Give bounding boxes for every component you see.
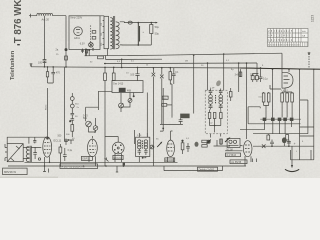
svg-text:0,1µ: 0,1µ [263,79,268,81]
label strip on line y=170.6 [198,167,218,171]
wire HT+ rail top [120,21,157,24]
svg-text:53421632451261532415: 53421632451261532415 [268,45,301,47]
resistor R12 below [286,135,289,141]
IF2 capacitor a [209,104,213,109]
wire strip connect line [260,118,301,120]
connector pin strip dark blobs [263,118,267,121]
capacitor C3 cluster above AVC bus [81,49,87,56]
wire vertical x=207.5 [207,63,209,90]
wire long vertical x=299.5 [299,69,301,160]
wire horizontal y=133.7 [253,133,308,135]
switch contact X3 on anode line [262,144,266,148]
svg-text:50µ: 50µ [155,26,160,29]
capacitor C10 cathode [63,148,67,161]
chassis label plate bottom left [3,168,28,175]
svg-text:220: 220 [101,43,103,46]
capacitor C8 [259,68,263,82]
node dot osc [133,95,135,97]
capacitor C2 parallel [51,67,55,83]
wire stub arrow [92,48,94,51]
resistor R3 psu [92,31,96,34]
resistor R9 right of IF2 [229,92,232,98]
wire heavy HT bus right segment [240,68,320,69]
dark part label in osc box [119,88,126,92]
svg-text:2536421425: 2536421425 [268,31,293,33]
svg-text:470: 470 [56,71,61,74]
wire screen bus [104,62,257,65]
wire IF1 connections [139,133,147,162]
svg-text:ECH11: ECH11 [165,158,174,162]
grid network cluster [64,139,74,145]
IF2 core dashes [215,95,217,104]
capacitor C7 under label [160,118,183,124]
wire x=147.3 vertical upper [146,93,148,138]
output transformer core [30,146,31,162]
trimmer capacitor osc 1 [128,99,132,103]
transformer T1 primary tapped box [104,16,109,48]
wire left vertical x=163.2 [160,88,163,131]
svg-text:150: 150 [101,33,103,36]
title dash mark [17,44,20,45]
antenna coil L1 [37,13,53,15]
wire vertical x=248.1 [248,107,260,124]
wire long vertical x=313.8 [313,69,315,160]
wire transformer secondary to tube anode [31,146,41,149]
svg-text:6452324653: 6452324653 [268,36,293,38]
ink smudge artifact [215,80,222,87]
svg-text:468: 468 [127,89,132,92]
svg-text:1.ZF: 1.ZF [137,135,142,137]
wire ECH11 top lead [105,137,118,143]
wire horizontal y=123.8 [248,123,300,125]
output transformer winding [26,146,29,162]
wire vertical x=307.9 [300,100,308,134]
boxed label strip [230,160,247,164]
transformer T1 primary winding loops [110,18,113,49]
output tube ECL11 [43,137,52,157]
grid cap blob [46,137,49,140]
resistor R10 pair [251,76,254,80]
small circle pin [38,158,40,160]
wire osc connections [98,91,133,112]
variable arrow mark [157,142,161,147]
dark label box 468kHz [180,114,189,119]
loudspeaker diagonal [7,144,23,162]
svg-text:110: 110 [101,23,103,26]
pilot lamp [89,43,94,48]
wire ground drop x=292 [291,146,293,166]
IF1 winding b [144,140,147,143]
wire vertical x=193.7 [193,55,195,113]
switch contact X1 [152,73,156,77]
wire speaker bottom connect [291,150,314,160]
wire verticals below strip [265,121,292,134]
switch contact box on antenna lead [65,56,68,60]
capacitor C12 above line [270,140,274,147]
svg-text:0,1µ: 0,1µ [68,150,73,152]
resistor R11 below [267,135,270,140]
wire ECL11 leads [45,157,50,167]
padder trimmer 1 [86,121,92,127]
svg-text:Volt: Volt [302,30,306,33]
parts right cluster wires [214,139,231,146]
IF transformer 1 box [136,137,150,156]
wire EM11 cathode bend [270,85,285,92]
svg-text:2M: 2M [185,61,188,63]
wire long vertical x=272.5 [272,69,274,117]
svg-text:AL 65/38: AL 65/38 [231,161,242,164]
node dot [88,49,90,51]
wire transformer top to box [100,15,104,17]
wire anode line y=146 to right [253,145,314,147]
tube EBF11 oval [88,139,98,157]
wire bottom line y=170.6 [164,166,223,171]
tube ECH11 socket circle [112,142,124,154]
boxed label under detector [226,153,241,157]
magic eye tube EM11 [282,72,293,88]
resistor R14 diagonal small [105,158,109,162]
svg-text:Netz 220V: Netz 220V [71,17,83,20]
capacitor C13 small above transformer [33,137,36,143]
wave range label strip [60,164,98,169]
svg-text:100: 100 [130,74,135,77]
svg-text:100: 100 [38,62,43,65]
wire heater bus [106,55,162,59]
voltage table top right [268,29,309,47]
wire antenna down-lead x=66 [65,16,67,67]
svg-text:Telefunken: Telefunken [10,50,16,80]
svg-text:2.ZF: 2.ZF [210,88,215,90]
resistor R4 psu [92,37,96,40]
IF2 lower resistors [208,113,211,119]
svg-text:Welle: Welle [46,104,48,110]
svg-text:865/38 W: 865/38 W [4,170,16,174]
padder trimmer 2 [93,126,98,131]
capacitor C6 beside R7 [172,68,176,84]
wire AVC bus [85,53,283,56]
resistor R5 on vertical x=105 [104,67,106,166]
resistor R8 horizontal [162,104,167,107]
resistor R2 small [98,56,104,59]
wire speaker to transformer [23,148,29,159]
wire x=282 from AVC bus into EM11 [281,53,283,72]
chassis ground arc [285,169,299,171]
wire bottom bus y=166 [8,165,246,167]
svg-text:ECL11: ECL11 [54,139,62,143]
capacitor C4 electrolytic filter [138,23,139,45]
rectifier tube V1 [74,27,83,36]
wire IF1 left feed [133,130,135,144]
IF transformer 2 shield dashed box [205,90,227,134]
capacitor C9 tone [33,147,37,159]
dark diode blob [282,137,287,143]
capacitor C1 in antenna lead [43,60,47,63]
junction dots on bus [44,66,46,68]
dark trimmer with arrow [207,140,211,144]
resistor cluster under EM11 right triple [281,93,284,102]
tube EF/ECH oval 2 [167,140,175,156]
oscillator coil box [112,81,143,93]
dark blob component [195,142,199,147]
node junction blob [65,48,68,51]
resistor R15 [181,143,184,150]
junction dots mid buses [104,63,106,65]
wire EBF11 leads [89,136,96,166]
IF2 trimmer top 1 [209,89,213,95]
wire detector to tube [225,145,243,151]
parts left of EBF tube small trimmer [150,145,154,149]
svg-text:1 0,1 2: 1 0,1 2 [281,90,288,92]
resistor R16 horizontal [202,140,207,143]
dashed shield line [90,25,92,47]
dipole antenna symbol right [308,54,310,70]
dark cap on bus [123,163,125,166]
boxed tube label [165,158,175,162]
svg-text:Drehko 2x500: Drehko 2x500 [199,168,215,171]
IF2 winding b [219,95,223,99]
wire ties right loop [300,127,314,136]
wire tube5 leads [245,156,257,166]
wire main HT bus [31,67,320,69]
speaker terminals [5,144,7,161]
svg-text:1324532614: 1324532614 [268,40,293,42]
svg-text:0,1 5643: 0,1 5643 [227,154,237,157]
wire tube2 leads [168,157,174,162]
power supply box [69,16,100,50]
wire EM11 grid stub [288,69,290,72]
arrow HT- rail end [150,23,152,45]
svg-text:mA: mA [302,35,306,38]
wire output stage top feed [7,137,47,143]
wire horizontal y=129.7 [240,129,265,131]
RC part right [287,140,291,147]
IF2 winding a [209,95,213,99]
boxed tube label ECH11 [113,155,123,159]
transformer T1 secondary winding loops [116,22,119,49]
loudspeaker box left [7,144,23,162]
capacitor C5 coupling [135,67,139,81]
svg-text:6,3V: 6,3V [80,43,85,46]
wire HT- rail bottom [120,44,152,46]
electrolytic can symbol on rail [128,21,132,24]
ground hooks below bus [43,166,118,173]
band switch component column [70,97,74,101]
resistor R13 cathode [59,147,62,153]
switch contact X2 [160,75,164,79]
wire vertical x=161.8 with switch [161,68,163,125]
svg-text:AZ11: AZ11 [74,37,80,40]
IF2 capacitor b [219,104,223,109]
bottom edge smear [0,177,58,178]
terminal ground stub left [30,63,33,66]
boxed tube label EBF11 [81,156,92,160]
svg-text:+: + [294,142,296,146]
wire vertical x=223.7 [223,54,225,90]
wire antenna lead [32,15,66,17]
resistor cluster under EM11 left pair [262,93,265,102]
IF2 trimmer top 2 [219,89,223,95]
output tube AL oval [243,141,252,157]
wire vertical x=238.7 [238,63,240,92]
resistor R7 [170,68,172,118]
resistor R6 on vertical x=113.7 [113,67,115,81]
wire vertical x=240.5 with part [240,69,242,77]
svg-text:Ant 20: Ant 20 [42,18,50,22]
arrowhead ground [291,165,293,168]
wire IF2 exits [211,134,221,138]
wire ECH11 bottom leads [115,153,122,162]
svg-text:50µ: 50µ [155,33,160,36]
wire coil tap down x=44.5 [44,16,46,67]
small boxed label 500 [162,96,168,99]
trimmer capacitor osc 2 [119,103,124,108]
resistor R1 grid leak [48,67,54,83]
svg-text:Osz 1413: Osz 1413 [113,82,124,85]
wire screen bus corner down x=257 [256,63,258,76]
IF1 winding a [138,140,141,143]
IF1 core dashes [142,141,144,149]
detector network box [227,138,240,147]
transformer T1 core [114,16,115,49]
wire tie heater to HT bus [121,59,123,67]
wire bottom bus y=162.3 [25,161,178,163]
wire padder connections [86,49,99,133]
junction dots bottom bus [60,165,62,167]
svg-text:T 876 WK: T 876 WK [13,0,24,43]
antenna terminal [29,14,32,18]
wire long vertical x=153.4 with switch [152,68,154,166]
svg-text:A 16,7-50 B 200-578: A 16,7-50 B 200-578 [62,165,86,168]
IF1 capacitors [138,149,148,155]
svg-text:1223: 1223 [310,15,314,22]
arrow HT+ rail end [156,22,158,24]
wire vertical x=246.5 [246,63,248,139]
vertical tuning lines x=47.5 and x=64.5 [48,67,65,141]
capacitor C11 [186,143,190,152]
